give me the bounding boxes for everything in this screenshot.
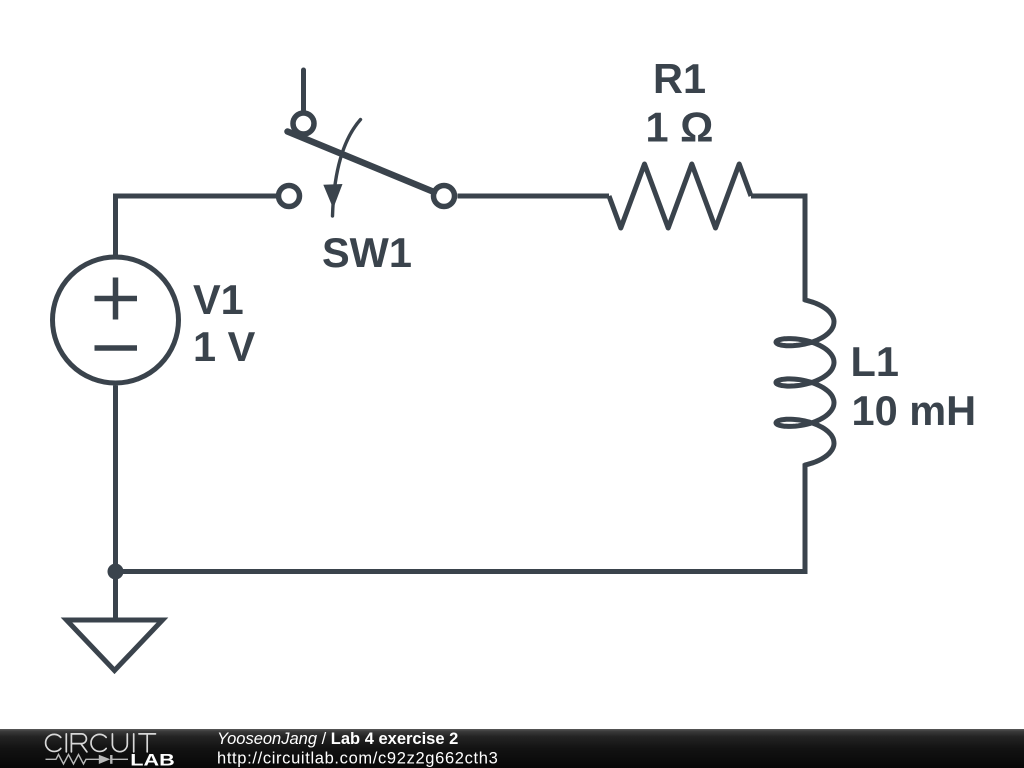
footer title text	[217, 730, 458, 748]
ground triangle	[67, 620, 163, 671]
SW1 upper terminal stub	[301, 70, 306, 110]
node junction dot	[108, 564, 124, 580]
wire V1 top to SW1 left terminal	[116, 196, 277, 258]
CircuitLab logo CIRCUIT letters	[46, 734, 156, 752]
switch SW1	[279, 70, 455, 216]
CircuitLab logo resistor-diode line and LAB	[46, 751, 175, 768]
svg-text:LAB: LAB	[130, 751, 175, 768]
V1 plus sign	[95, 278, 138, 320]
svg-text:10 mH: 10 mH	[852, 387, 977, 434]
wire R1 to L1	[751, 196, 805, 302]
V1 minus sign	[95, 345, 138, 351]
label V1 1 V	[193, 276, 256, 370]
V1 body circle	[53, 257, 179, 383]
svg-text:L1: L1	[851, 338, 899, 385]
SW1 actuation arrow arc	[333, 120, 361, 217]
inductor L1	[776, 300, 834, 465]
resistor R1	[609, 164, 751, 228]
svg-text:SW1: SW1	[322, 229, 412, 276]
SW1 left pole terminal circle	[279, 186, 300, 207]
label SW1	[322, 229, 412, 276]
svg-text:1 V: 1 V	[193, 323, 256, 370]
svg-text:http://circuitlab.com/c92z2g66: http://circuitlab.com/c92z2g662cth3	[217, 750, 498, 768]
svg-text:R1: R1	[653, 55, 706, 102]
footer url text	[217, 750, 498, 768]
SW1 arrowhead	[323, 184, 342, 209]
svg-text:V1: V1	[193, 276, 244, 323]
wire V1 bottom to node	[113, 386, 118, 572]
wire L1 bottom to bottom-left node	[116, 464, 806, 572]
SW1 right throw terminal circle	[434, 186, 455, 207]
footer bar	[0, 729, 1024, 768]
voltage source V1	[53, 257, 179, 383]
SW1 blade	[288, 132, 435, 193]
svg-text:1 Ω: 1 Ω	[646, 104, 714, 151]
label R1 1 ohm	[646, 55, 714, 151]
label L1 10 mH	[851, 338, 977, 434]
wire SW1 to R1	[458, 194, 610, 199]
svg-text:YooseonJang / Lab 4 exercise 2: YooseonJang / Lab 4 exercise 2	[217, 730, 458, 748]
SW1 upper terminal circle	[293, 113, 314, 134]
ground	[67, 572, 163, 671]
ground stem	[113, 572, 118, 621]
